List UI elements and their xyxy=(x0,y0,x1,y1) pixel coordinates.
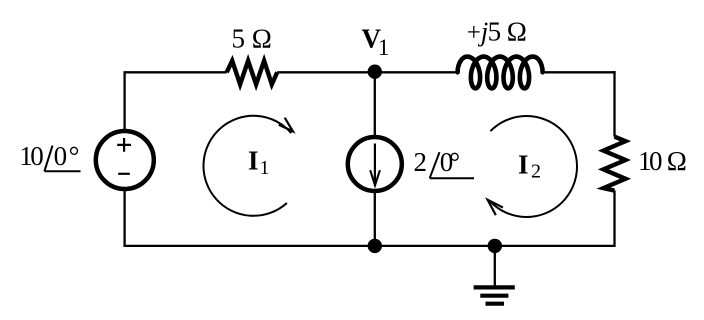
svg-text:1: 1 xyxy=(260,157,270,179)
ground bar 3 xyxy=(486,302,505,306)
node bottom-middle dot xyxy=(368,239,382,253)
node ground dot xyxy=(488,239,502,253)
voltage source minus sign xyxy=(118,173,130,175)
svg-text:5 Ω: 5 Ω xyxy=(232,23,272,53)
svg-text:0°: 0° xyxy=(54,141,81,171)
svg-text:Ω: Ω xyxy=(507,17,527,47)
angle underline for 10 angle 0 xyxy=(44,170,80,172)
current source arrow shaft xyxy=(374,144,376,184)
wire right vertical upper xyxy=(613,71,615,136)
resistor R 10ohm vertical xyxy=(604,137,626,191)
svg-text:+: + xyxy=(467,20,481,47)
svg-text:10: 10 xyxy=(638,146,662,176)
resistor R 5ohm xyxy=(227,61,278,85)
wire top-middle horizontal xyxy=(277,71,457,73)
ground bar 2 xyxy=(480,294,508,298)
current source circle xyxy=(348,137,402,191)
current source arrowhead xyxy=(370,170,380,185)
svg-text:1: 1 xyxy=(378,35,390,60)
wire top-left horizontal xyxy=(125,71,227,73)
ground bar 1 xyxy=(474,285,515,289)
wire left vertical lower xyxy=(123,189,125,247)
angle slash for 10 angle 0 xyxy=(44,146,52,172)
wire left vertical upper xyxy=(123,71,125,131)
svg-text:10: 10 xyxy=(19,141,43,171)
wire top-right horizontal xyxy=(543,71,616,73)
wire bottom horizontal xyxy=(125,245,615,247)
svg-text:I: I xyxy=(518,150,529,180)
svg-text:2: 2 xyxy=(531,161,541,183)
mesh current arrow I1 arc xyxy=(203,116,291,216)
svg-text:I: I xyxy=(248,146,259,176)
voltage source plus sign xyxy=(117,138,131,152)
mesh current arrow I2 arc xyxy=(490,116,577,217)
voltage source circle xyxy=(96,131,154,189)
mesh current arrow I1 head xyxy=(279,118,293,132)
angle slash for 2 angle 0 xyxy=(430,152,440,178)
svg-text:Ω: Ω xyxy=(667,146,687,176)
svg-text:°: ° xyxy=(449,147,460,177)
wire middle vertical lower xyxy=(374,191,376,246)
angle underline for 2 angle 0 xyxy=(430,177,474,179)
svg-text:5: 5 xyxy=(488,17,502,47)
wire middle vertical upper xyxy=(374,72,376,137)
ground stem xyxy=(494,246,496,288)
svg-text:2: 2 xyxy=(414,147,428,177)
node V1 dot xyxy=(368,65,382,79)
inductor +j5 ohm xyxy=(458,57,543,89)
mesh current arrow I2 head xyxy=(488,200,503,215)
wire right vertical lower xyxy=(613,190,615,247)
